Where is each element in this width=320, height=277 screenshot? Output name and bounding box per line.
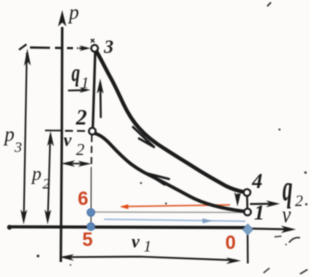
arrow up along 2-3	[97, 79, 104, 119]
thin drop line to axis	[90, 167, 92, 224]
svg-text:v: v	[132, 232, 141, 252]
svg-text:q: q	[72, 59, 81, 87]
speck apostrophe near q2	[304, 171, 307, 174]
speck dot mid	[140, 182, 142, 184]
svg-text:2: 2	[75, 105, 87, 130]
svg-text:6: 6	[78, 189, 89, 210]
blue dot node 6	[87, 209, 95, 217]
p axis arrowhead	[58, 10, 66, 27]
svg-text:0: 0	[225, 233, 236, 254]
dimension v2	[61, 160, 91, 166]
v axis start blob	[7, 225, 12, 230]
gray line node6 to node1	[94, 211, 253, 214]
svg-text:2: 2	[76, 140, 85, 159]
dimension p2	[45, 131, 54, 225]
speck top right	[267, 2, 271, 6]
svg-text:1: 1	[144, 239, 152, 256]
line 4-1	[246, 196, 248, 209]
adiabat 3-4 outer curve	[97, 52, 244, 193]
arrow on outer curve	[133, 127, 154, 147]
arrow toward point 3	[79, 45, 91, 51]
red arrow 1 to 6	[120, 204, 230, 209]
svg-text:v: v	[64, 130, 73, 150]
point 1	[244, 209, 251, 216]
point 4	[244, 189, 251, 196]
svg-text:p: p	[67, 2, 79, 24]
arrow down 4 to 1	[234, 192, 241, 207]
speck right	[278, 128, 280, 130]
adiabat 2-1 inner curve	[95, 134, 244, 212]
blue diamond node 0	[243, 224, 253, 235]
svg-text:q: q	[283, 168, 293, 209]
isochore 2-3	[93, 52, 95, 128]
point 2	[89, 128, 96, 135]
v axis	[8, 225, 250, 229]
speck bottom right 1	[289, 238, 300, 243]
speck dot bottom left	[70, 264, 72, 266]
speck dot right	[285, 244, 287, 246]
arrow q1 toward line	[68, 87, 91, 93]
tick at left end of dashed line	[19, 44, 27, 50]
dimension p3	[21, 49, 31, 225]
blue arrow 5 to 0	[104, 218, 246, 223]
svg-text:3: 3	[103, 37, 114, 58]
extension line below point 1	[247, 234, 249, 264]
dashed line at p3 level	[30, 46, 78, 49]
arrow q2 out	[250, 200, 280, 207]
svg-text:p: p	[30, 164, 42, 185]
svg-text:1: 1	[254, 201, 265, 225]
v axis arrow segment	[252, 228, 285, 231]
period after q2 sub	[305, 203, 307, 205]
svg-text:5: 5	[82, 230, 93, 251]
arrow on inner curve	[148, 174, 170, 185]
speck dash above 0	[275, 235, 282, 238]
dashed drop line below point 2	[90, 135, 93, 167]
dimension v1	[60, 254, 242, 264]
v axis arrowhead	[281, 226, 296, 233]
svg-text:p: p	[3, 124, 15, 146]
svg-text:2: 2	[295, 193, 303, 210]
svg-text:3: 3	[14, 140, 23, 156]
x mark above point 3	[91, 39, 95, 43]
dashed line at p2 level	[65, 130, 88, 132]
point 3	[91, 45, 98, 52]
p axis	[61, 27, 62, 262]
svg-text:4: 4	[251, 169, 263, 193]
speck bottom right 2	[300, 270, 308, 275]
blue dot node 5	[87, 223, 95, 231]
speck bottom left	[37, 255, 40, 258]
svg-text:2: 2	[43, 177, 51, 193]
tick p2 level left of axis	[45, 129, 62, 131]
speck bottom center	[264, 268, 270, 273]
speck dot on red line	[165, 203, 167, 205]
